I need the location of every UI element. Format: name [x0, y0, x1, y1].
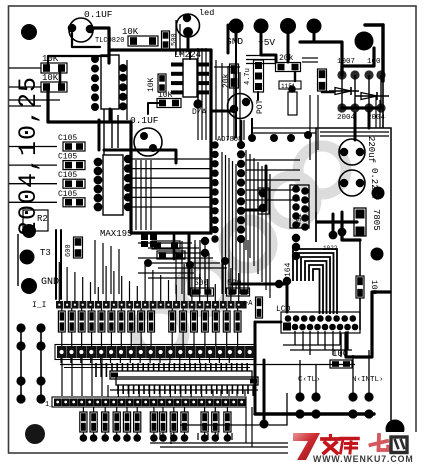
wire 4.7u down [257, 92, 259, 100]
svg-text:0.1UF: 0.1UF [130, 115, 159, 126]
resistor R16 [157, 251, 185, 259]
IC U8 left pads [292, 185, 300, 193]
svg-text:R2: R2 [37, 214, 48, 224]
wires row B to comb [60, 358, 62, 363]
svg-text:WWW.WENKU7.COM: WWW.WENKU7.COM [313, 454, 414, 464]
svg-text:1151: 1151 [281, 83, 296, 90]
wires comb stubs left [95, 363, 97, 377]
via right mid 2 [371, 248, 384, 261]
resistor bank2 x137 [134, 412, 141, 432]
wire top bus [109, 48, 211, 51]
svg-text:D/A: D/A [192, 108, 207, 117]
mounting hole bottom-left [25, 424, 45, 444]
wire thick mid-left vertical [131, 122, 211, 233]
wire thick staircase U7 [242, 166, 266, 210]
wire routing right of POT [251, 118, 253, 138]
connector J4 row B [57, 346, 67, 358]
svg-text:100: 100 [332, 349, 348, 359]
diode D3 [361, 93, 377, 100]
connector J5 row C [54, 399, 62, 407]
svg-text:0.1UF: 0.1UF [84, 9, 113, 20]
resistor bank1 x82 [78, 311, 85, 332]
svg-text:N‹INTL›: N‹INTL› [352, 376, 384, 384]
svg-text:0.22uf: 0.22uf [369, 168, 379, 200]
via group diodes bottom [337, 103, 346, 112]
wires U2 area routing [103, 109, 105, 155]
wire thick right 3 [300, 42, 342, 75]
svg-text:2004: 2004 [337, 114, 356, 122]
wire thick mid drop [173, 233, 176, 259]
IC U2 left DIP body [101, 55, 119, 109]
wire fan feeders [332, 214, 335, 236]
resistor bank2 x205 [201, 412, 208, 432]
resistor bank1 x151 [148, 311, 155, 332]
resistor bank2 x154 [150, 412, 157, 432]
wire +5V down [261, 33, 276, 62]
wire right col down [382, 81, 384, 128]
resistor bank2 x174 [170, 412, 177, 432]
wire R3-R4 [59, 68, 62, 87]
resistor bank1 x131 [128, 311, 135, 332]
connector J1 pads row2 [283, 323, 291, 331]
wires U7 vertical bus [221, 152, 223, 294]
pads above U7 [270, 134, 278, 142]
via GND pad [229, 19, 244, 34]
wire bottom box outline [180, 393, 287, 425]
svg-text:600: 600 [65, 244, 73, 257]
resistor bank1 x238 [234, 311, 241, 332]
wire U2 bottom stub [109, 109, 112, 122]
mounting hole under watermark [386, 425, 402, 441]
resistor bank1 x111 [108, 311, 115, 332]
pads right of U8 [292, 234, 300, 242]
IC U6 left pads [94, 158, 103, 167]
resistor bank1 x101 [98, 311, 105, 332]
resistor R12 100 [356, 276, 364, 298]
IC U2 right pads [119, 64, 127, 72]
resistor bank1 x227 [223, 311, 230, 332]
wire POT down [240, 121, 243, 140]
svg-text:1022: 1022 [323, 245, 338, 252]
via pad 3 [280, 18, 296, 34]
connector J1 LCD box [281, 312, 360, 333]
wire GND branch [227, 25, 230, 53]
wire pad4 down [313, 33, 316, 42]
wire R8 down [148, 103, 162, 114]
wire R11 to diodes [322, 91, 338, 94]
svg-text:220uf: 220uf [366, 136, 376, 163]
wire bottom horiz 2 [160, 446, 290, 448]
resistor bank1 x183 [180, 311, 187, 332]
svg-text:4S1: 4S1 [296, 213, 304, 226]
wire thick 164 bus [232, 284, 287, 312]
connector J5 row C outline [52, 397, 246, 407]
pads middle band [201, 237, 209, 245]
IC U9 horizontal [110, 371, 252, 379]
pad group CTL [295, 392, 304, 401]
mounting hole top-left [21, 24, 37, 40]
wire routing verticals to row A [194, 240, 196, 294]
resistor bank2 x227 [224, 412, 231, 432]
wire thick under cap [104, 150, 176, 163]
wire R12 up [359, 240, 361, 276]
wire GND column down [235, 42, 237, 138]
resistor bank2 x105 [102, 412, 109, 432]
resistor R14 600 [74, 237, 83, 258]
wire R19 up [340, 333, 342, 357]
svg-text:I_I: I_I [32, 301, 46, 310]
wire column B [40, 328, 42, 399]
IC U6 right pads [124, 155, 132, 163]
via right mid 1 [372, 187, 385, 200]
svg-text:AD7808: AD7808 [217, 136, 242, 144]
pad GND left [21, 278, 37, 294]
diode D2 [335, 88, 351, 95]
wire C1 left [72, 33, 100, 47]
wire main vertical bus [209, 50, 212, 233]
wire thick right 1 [381, 25, 384, 81]
wire LCD collector [283, 344, 340, 346]
wires NINTL drops [352, 355, 354, 393]
resistor bank2 x163 [159, 412, 166, 432]
mounting hole top-right [355, 32, 374, 51]
wires C105 stubs [9, 146, 57, 148]
svg-text:4.7u: 4.7u [244, 68, 252, 85]
resistor bank2 x127 [123, 412, 130, 432]
capacitor C2 4.7u [254, 60, 264, 92]
connector J2 row A [56, 301, 63, 309]
wire thick right 2 [365, 23, 383, 26]
resistor bank1 x62 [58, 311, 65, 332]
wire pad3 down [287, 33, 290, 62]
wires bank1 stubs [61, 308, 63, 311]
wire R3 up [48, 56, 109, 68]
svg-text:MAX195: MAX195 [100, 229, 132, 239]
svg-text:C‹TL›: C‹TL› [298, 376, 321, 384]
pad R2 [22, 224, 36, 238]
svg-text:10K: 10K [147, 77, 156, 92]
svg-text:POT: POT [256, 99, 265, 114]
IC U8 right pads [301, 187, 309, 195]
capacitor C3 220uf [339, 139, 365, 165]
resistor R20 A [256, 297, 263, 318]
wire long horiz IC zone [60, 364, 355, 366]
pads 2x2 near MAX195 [141, 234, 148, 240]
potentiometer POT1 [228, 94, 253, 119]
resistor bank2 x184 [181, 412, 188, 432]
via group diodes top [337, 70, 346, 79]
resistor bank1 x141 [138, 311, 145, 332]
resistor bank1 x72 [68, 311, 75, 332]
resistor R11 [318, 69, 327, 91]
pad row A extra [240, 301, 247, 309]
component U4 1151 [279, 81, 301, 89]
connector J4 row B outline [55, 345, 256, 360]
wire thick pair left-bottom [55, 230, 57, 299]
wire GND pad down [235, 33, 238, 42]
resistor R15 [152, 241, 180, 249]
pad T3 [20, 250, 35, 265]
wires U2 left stubs [9, 67, 41, 69]
connector J1 pads row1 [285, 315, 292, 322]
wire LM224 top [189, 50, 191, 59]
wires U6 routing verticals [135, 160, 137, 230]
wire diode top bus thick [342, 48, 374, 75]
resistor bank2 x83 [80, 412, 87, 432]
wires bank2 drops [159, 433, 161, 440]
wire 7805 left [317, 220, 357, 223]
svg-text:500: 500 [171, 33, 179, 46]
resistor bank1 x194 [191, 311, 198, 332]
resistor bank1 x205 [202, 311, 209, 332]
via +5V pad [254, 19, 269, 34]
via pad 4 [307, 19, 322, 34]
IC U8 4S1 body [290, 185, 309, 228]
wire bus drop to connector [188, 233, 191, 294]
wire bottom drops [245, 407, 247, 443]
wire C1 to bus [90, 28, 109, 63]
wire diodes to box [368, 108, 371, 128]
wire bottom horiz 1 [150, 442, 290, 444]
IC U6 MAX195 body [103, 155, 123, 215]
wire bottom thick bus [255, 412, 374, 415]
wires comb drops [107, 385, 109, 397]
wire left column [17, 234, 19, 286]
svg-text:500: 500 [194, 279, 209, 288]
resistor bank2 x215 [212, 412, 219, 432]
wire routing top mid [246, 55, 276, 57]
wire D/A up [197, 92, 199, 104]
wire routing misc 1 [197, 48, 199, 140]
resistor R6 500 vertical [162, 31, 170, 49]
wires LCD pad drops [294, 331, 296, 345]
wire LCD left thick [255, 321, 281, 324]
svg-text:7805: 7805 [371, 209, 381, 231]
wires left of led [175, 20, 177, 55]
regulator U5 7805 [354, 208, 366, 236]
wire bottom thick verticals [254, 322, 257, 414]
resistor bank1 x172 [169, 311, 176, 332]
wires row A risers [58, 262, 60, 301]
resistor bank2 x117 [113, 412, 120, 432]
wire routing mid horizontals [246, 159, 300, 161]
pad D/A [193, 99, 202, 108]
svg-text:T3: T3 [40, 248, 51, 258]
pad group NINTL [348, 392, 357, 401]
wires comb to row C [110, 389, 258, 391]
svg-text:led: led [199, 8, 214, 18]
wire fan bus [293, 249, 337, 314]
wires U7 top risers [215, 60, 217, 140]
IC U7 right pads [237, 141, 245, 149]
wires U7 right bus vertical [245, 150, 247, 250]
component R13 [258, 188, 269, 214]
resistor bank2 x94 [90, 412, 97, 432]
wire LED down [187, 32, 190, 50]
wire R12 down [359, 298, 361, 330]
resistor bank1 x92 [88, 311, 95, 332]
wires diode verticals [341, 75, 343, 108]
wire LCD loop [346, 292, 390, 357]
wire column A [20, 328, 22, 399]
resistor R2 box [23, 210, 48, 231]
IC U7 left pads [211, 141, 218, 148]
wires routing top box [320, 131, 389, 133]
pads bank2 bottom [80, 434, 88, 442]
svg-text:164: 164 [284, 262, 293, 277]
component U11 small vertical box [288, 92, 297, 115]
wire U2 right bus [126, 60, 128, 120]
wire POT to bus [212, 110, 234, 113]
wire R4 down [48, 87, 131, 122]
wire diode bottom bus [342, 106, 381, 109]
resistor bank1 x216 [212, 311, 219, 332]
svg-text:20k: 20k [279, 54, 294, 63]
sub-board outline right [316, 128, 391, 453]
wire 20kh right pad down [294, 72, 296, 81]
IC U2 left pads [91, 55, 99, 63]
resistor bank1 x121 [118, 311, 125, 332]
capacitor C4 0.22uf [339, 170, 365, 196]
svg-text:TLC0820: TLC0820 [95, 37, 124, 45]
IC U10 horizontal [116, 377, 258, 385]
svg-text:LCD: LCD [276, 305, 291, 314]
wires row B drops left [61, 358, 63, 396]
wires U7 bus left [132, 158, 211, 160]
wires middle band routing [138, 242, 192, 244]
svg-text:⊢A: ⊢A [244, 300, 253, 308]
mounting hole bottom-right [386, 420, 405, 439]
